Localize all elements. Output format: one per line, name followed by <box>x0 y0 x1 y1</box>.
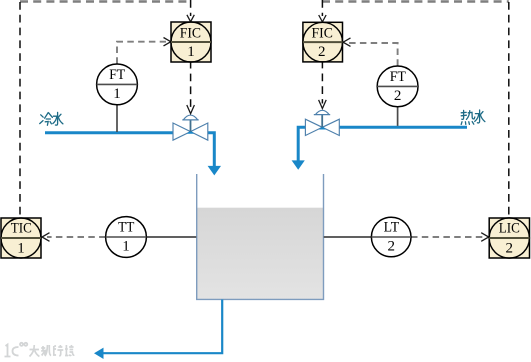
svg-text:FIC: FIC <box>180 25 201 41</box>
svg-text:FIC: FIC <box>312 25 333 41</box>
svg-text:TT: TT <box>118 220 134 236</box>
svg-text:1: 1 <box>187 44 195 60</box>
svg-text:2: 2 <box>387 239 395 255</box>
svg-text:1: 1 <box>17 240 25 256</box>
svg-text:2: 2 <box>394 88 402 104</box>
svg-text:1: 1 <box>113 86 121 102</box>
svg-text:FT: FT <box>109 67 125 83</box>
svg-text:2: 2 <box>506 240 514 256</box>
svg-text:FT: FT <box>390 69 406 85</box>
svg-text:1: 1 <box>122 239 130 255</box>
svg-text:LT: LT <box>384 220 400 236</box>
svg-text:TIC: TIC <box>11 221 32 237</box>
svg-text:LIC: LIC <box>499 221 520 237</box>
svg-text:2: 2 <box>318 44 326 60</box>
